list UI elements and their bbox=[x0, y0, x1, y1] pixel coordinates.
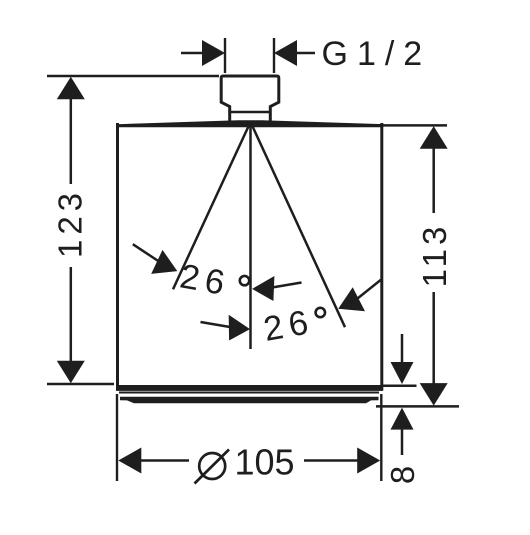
degree symbol of upper 26 label bbox=[240, 276, 249, 285]
diameter 105 left arrowhead bbox=[118, 448, 141, 474]
angle leader arrow pointing left at center line bbox=[272, 283, 302, 288]
123 bottom arrowhead bbox=[57, 361, 85, 384]
123 top arrowhead bbox=[57, 77, 85, 100]
svg-text:8: 8 bbox=[384, 466, 421, 484]
113 top arrowhead bbox=[420, 126, 448, 149]
angle leader arrow pointing right at center line bbox=[201, 322, 231, 327]
fitting thread groove line bbox=[230, 111, 271, 114]
svg-text:G1/2: G1/2 bbox=[322, 35, 432, 73]
8 dimension top extension line bbox=[383, 385, 417, 388]
G1/2 dimension line left stem bbox=[181, 52, 206, 55]
angle leader arrow at right spray line bbox=[358, 280, 382, 299]
113 bottom arrowhead bbox=[420, 383, 448, 406]
left spray angle line bbox=[173, 122, 251, 289]
123 dimension line upper segment bbox=[70, 97, 73, 184]
right spray angle line bbox=[251, 122, 346, 327]
body right wall bbox=[380, 123, 383, 391]
body bottom rim bbox=[116, 385, 383, 391]
8 dimension upper leader stem bbox=[401, 334, 404, 363]
body left wall bbox=[116, 123, 119, 391]
svg-text:113: 113 bbox=[416, 223, 453, 288]
123 top extension line bbox=[47, 75, 219, 78]
G1/2 left arrowhead bbox=[202, 40, 225, 66]
angle leader arrow at left spray line bbox=[133, 244, 159, 261]
G1/2 dimension extension line right bbox=[273, 38, 275, 73]
123 bottom extension line bbox=[47, 383, 114, 386]
113 dimension line upper segment bbox=[432, 147, 435, 213]
rim lower outline bbox=[119, 392, 379, 394]
8 dimension lower leader stem bbox=[401, 429, 404, 455]
8 lower arrowhead pointing up bbox=[391, 408, 414, 430]
spray plate bbox=[120, 397, 379, 403]
diameter 105 dimension line left segment bbox=[139, 459, 189, 462]
diameter 105 left extension line bbox=[116, 394, 118, 481]
diameter 105 right arrowhead bbox=[357, 448, 380, 474]
113 top extension line bbox=[376, 124, 447, 127]
svg-text:105: 105 bbox=[235, 442, 295, 483]
diameter 105 dimension line right segment bbox=[304, 459, 361, 462]
center axis line bbox=[249, 122, 252, 349]
diameter 105 right extension line bbox=[380, 394, 382, 481]
113 bottom extension line bbox=[376, 405, 459, 408]
shower head body top cap band bbox=[117, 120, 384, 127]
svg-text:123: 123 bbox=[51, 188, 88, 258]
degree symbol of lower 26 label bbox=[316, 308, 325, 317]
G1/2 right arrowhead bbox=[274, 40, 297, 66]
connector fitting G1/2 bbox=[221, 76, 279, 121]
123 dimension line lower segment bbox=[70, 267, 73, 362]
G1/2 dimension line right stem bbox=[293, 52, 315, 55]
label diameter 105: diameter symbol bbox=[199, 453, 225, 479]
113 dimension line lower segment bbox=[432, 292, 435, 384]
8 upper arrowhead pointing down bbox=[391, 362, 414, 384]
G1/2 dimension extension line left bbox=[224, 38, 226, 73]
